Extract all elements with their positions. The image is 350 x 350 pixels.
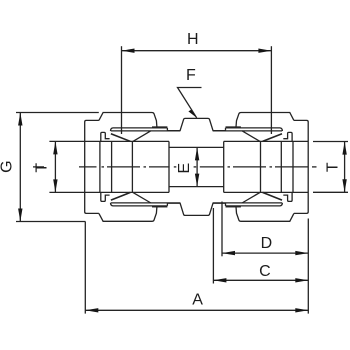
svg-text:F: F xyxy=(186,67,196,84)
svg-text:T: T xyxy=(33,163,50,173)
svg-text:G: G xyxy=(0,160,16,172)
svg-text:E: E xyxy=(176,163,193,174)
svg-text:D: D xyxy=(261,235,273,252)
svg-text:A: A xyxy=(192,292,203,309)
svg-text:H: H xyxy=(187,31,199,48)
svg-text:C: C xyxy=(259,263,271,280)
svg-text:T: T xyxy=(324,162,341,172)
